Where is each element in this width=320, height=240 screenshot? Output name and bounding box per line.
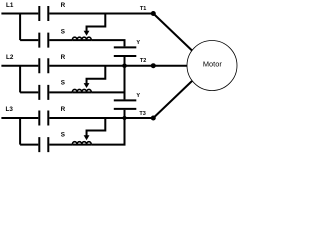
junction dot T2 bus	[122, 63, 127, 68]
label T3	[139, 111, 145, 117]
label T1	[140, 6, 146, 12]
wire S2 branch	[20, 91, 38, 93]
tap arrow winding 1	[87, 14, 106, 32]
wire T2 to motor	[153, 65, 187, 67]
wire contact Y1 to node T2	[124, 57, 126, 66]
wire junction drop L1 branch	[19, 14, 21, 41]
label R (row 1)	[61, 2, 66, 9]
label Y (row 2)	[136, 93, 140, 99]
junction dot node T2	[151, 63, 156, 68]
svg-text:L3: L3	[6, 106, 14, 113]
motor M1	[187, 41, 237, 91]
autotransformer winding 2	[72, 91, 91, 93]
svg-text:S: S	[61, 29, 65, 36]
svg-text:S: S	[61, 132, 65, 139]
wire L3 to contact R3	[1, 117, 38, 119]
wire S3 branch	[20, 144, 38, 146]
svg-text:Y: Y	[136, 40, 140, 46]
label S (row 3)	[61, 132, 65, 139]
wire contact S3 to winding 3	[49, 144, 72, 146]
contact R3	[39, 111, 48, 126]
wire contact Y2 to node T3	[124, 110, 126, 118]
svg-text:T1: T1	[140, 6, 146, 12]
contact R1	[39, 6, 48, 21]
autotransformer winding 1	[72, 39, 91, 41]
svg-text:R: R	[61, 54, 66, 61]
label R (row 3)	[61, 106, 66, 113]
wire L2 to contact R2	[1, 65, 38, 67]
node L1 label	[6, 2, 14, 9]
wire R3 to node T3	[49, 117, 153, 119]
junction dot T3 bus	[122, 116, 126, 120]
svg-text:T3: T3	[139, 111, 145, 117]
tap arrow winding 3	[87, 118, 106, 136]
junction dot node T1	[151, 11, 156, 16]
wire junction drop L3 branch	[19, 118, 21, 145]
junction dot node T3	[151, 116, 156, 121]
wire R2 to node T2	[49, 65, 153, 67]
wire L1 to contact R1	[1, 13, 38, 15]
wire S1 branch	[20, 39, 38, 41]
wire junction drop L2 branch	[19, 66, 21, 93]
contact S3	[39, 137, 48, 152]
svg-text:R: R	[61, 106, 66, 113]
svg-text:S: S	[61, 80, 65, 87]
node L3 label	[6, 106, 14, 113]
wire winding 1 to contact Y1	[91, 40, 124, 46]
wire T3 to motor	[153, 81, 192, 118]
wire contact S1 to winding 1	[49, 39, 72, 41]
svg-text:L1: L1	[6, 2, 14, 9]
contact R2	[39, 58, 48, 73]
wire T1 to motor	[153, 14, 192, 51]
svg-text:L2: L2	[6, 54, 14, 61]
wire contact S2 to winding 2	[49, 91, 72, 93]
tap arrow winding 2	[87, 66, 106, 84]
node L2 label	[6, 54, 14, 61]
label Y (row 1)	[136, 40, 140, 46]
wire winding 3 up to node T3	[91, 118, 124, 145]
label S (row 2)	[61, 80, 65, 87]
label S (row 1)	[61, 29, 65, 36]
contact S1	[39, 33, 48, 48]
svg-text:Motor: Motor	[203, 60, 222, 69]
label R (row 2)	[61, 54, 66, 61]
wire node T2 to contact Y2	[124, 66, 126, 100]
label T2	[140, 58, 146, 64]
svg-text:T2: T2	[140, 58, 146, 64]
svg-text:Y: Y	[136, 93, 140, 99]
autotransformer winding 3	[72, 144, 91, 146]
wire winding 2 to vertical bus	[91, 91, 124, 93]
wire R1 to node T1	[49, 13, 153, 15]
contact Y1	[114, 47, 137, 56]
contact Y2	[114, 100, 137, 109]
contact S2	[39, 85, 48, 100]
svg-text:R: R	[61, 2, 66, 9]
